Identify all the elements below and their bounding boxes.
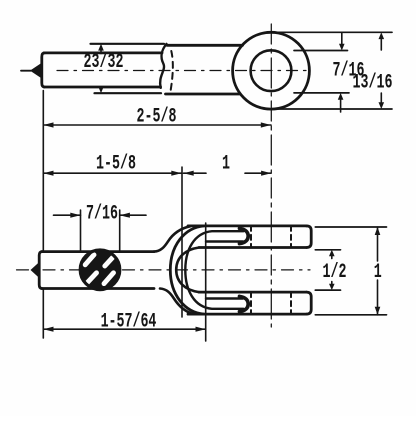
flare transition shank->fork top <box>154 226 190 251</box>
svg-text:23/32: 23/32 <box>84 51 124 73</box>
right-side 1 top extension line <box>315 226 386 228</box>
svg-text:1/2: 1/2 <box>323 262 347 284</box>
tongue cap top prong <box>240 228 249 243</box>
rod bottom edge <box>44 86 161 89</box>
fork bottom prong top (slot) edge <box>199 291 307 294</box>
dimension 1 (right) vertical line upper <box>377 227 379 261</box>
dimension 1-5/8 left arrow <box>43 171 53 176</box>
dimension 1 (right) top arrow <box>375 227 381 235</box>
left extension line (lower segment, 1-57/64) <box>42 290 44 339</box>
dimension 1-57/64 left arrow <box>43 327 53 332</box>
eye inner circle (hole) <box>251 50 292 91</box>
tongue inner line top <box>206 240 243 242</box>
dimension 1-57/64 right arrow <box>196 327 206 332</box>
dimension 1-5/8 right arrow <box>171 171 181 176</box>
hidden hole line left (top prong) <box>250 226 252 248</box>
extension line inner-top (7/16) <box>294 50 348 52</box>
centerline stub left of rod tip <box>21 70 31 72</box>
rod left tip (filled cone) <box>30 63 42 79</box>
fork bottom prong right end <box>307 292 312 314</box>
shank top edge <box>42 250 155 253</box>
svg-text:1: 1 <box>222 153 230 175</box>
bottom view horizontal center line (dash-dot) <box>17 269 311 271</box>
left extension line (upper segment, shared by 2-5/8, 1-5/8) <box>42 91 44 251</box>
fork top prong top edge <box>188 224 307 227</box>
dimension 1-57/64 line <box>43 328 205 330</box>
flare transition shank->fork bottom <box>160 289 193 314</box>
dimension 7/16 bottom arrow (up) <box>340 99 342 112</box>
fork top prong bottom (slot) edge <box>199 246 307 249</box>
svg-text:2-5/8: 2-5/8 <box>137 106 177 128</box>
extension line inner-bottom (7/16) <box>294 92 349 94</box>
shank bottom edge <box>42 287 155 290</box>
boss bottom extension line (23/32 lower) <box>95 92 162 94</box>
dimension 2-5/8 left arrow <box>43 122 53 127</box>
dimension 1 (right) bottom arrow <box>375 307 381 315</box>
rod left end vertical edge <box>42 53 45 87</box>
fork bottom prong bottom edge <box>188 313 307 316</box>
dimension 1-5/8 line <box>43 172 182 174</box>
1/2 lower arrow (down) <box>331 282 333 286</box>
extension line outer-bottom (13/16) <box>272 108 392 110</box>
extension line x=205.7 (1-57/64 right reference) <box>205 223 207 341</box>
boss bottom edge (right of break) <box>166 93 241 96</box>
rod top edge <box>44 52 162 55</box>
fork top prong right end <box>307 226 312 248</box>
hidden hole line left (bottom prong) <box>250 292 252 314</box>
rod horizontal center line (dash-dot) <box>57 70 312 72</box>
rod break line (dashed curve) <box>170 51 173 93</box>
shank left end vertical edge <box>39 252 42 289</box>
dimension 13/16 bottom arrow (down) <box>380 93 382 103</box>
extension line x=182 (slot end reference) <box>181 167 183 317</box>
right-side 1 bottom extension line <box>315 314 386 316</box>
slot end arc <box>176 248 199 293</box>
7/16 (shank) right extension line <box>119 210 121 251</box>
dimension 1 (slot depth) left arrow + tail <box>184 172 207 174</box>
7/16 (shank) left extension line <box>80 210 82 251</box>
1/2 lower stub line <box>315 289 340 291</box>
dimension 7/16 top arrow (down) <box>341 33 343 45</box>
dimension 7/16 (shank) left tail + arrow <box>54 214 81 216</box>
tongue cap bottom prong <box>240 296 249 311</box>
svg-text:13/16: 13/16 <box>353 72 393 94</box>
eye outer circle <box>233 32 310 109</box>
dimension 7/16 (shank) right tail + arrow <box>120 214 146 216</box>
dimension 23/32 arrow up <box>100 50 102 54</box>
extension line outer-top (13/16) <box>272 31 392 33</box>
hatched section circle <box>80 250 120 290</box>
eye vertical center line (dash-dot, continues to bottom view) <box>270 24 272 330</box>
svg-text:1-57/64: 1-57/64 <box>101 311 157 333</box>
1/2 upper stub line <box>315 249 340 251</box>
tongue outer curve (inner bend surface) <box>185 231 243 309</box>
dimension 1 right tail + arrow <box>245 172 271 174</box>
hidden hole line right (top prong) <box>290 226 292 248</box>
1/2 upper arrow (up) <box>331 254 333 259</box>
hidden hole line right (bottom prong) <box>290 292 292 314</box>
svg-text:1: 1 <box>374 262 382 284</box>
boss top edge (right of break) <box>167 44 243 47</box>
dimension labels <box>84 51 393 333</box>
dimension 13/16 top arrow (up) <box>380 39 382 50</box>
dimension 2-5/8 line <box>43 124 271 126</box>
dimension 23/32 arrow down <box>100 86 102 89</box>
svg-text:1-5/8: 1-5/8 <box>96 153 136 175</box>
fork outer bend arc <box>170 226 204 314</box>
svg-text:7/16: 7/16 <box>86 203 118 225</box>
dimension 1 (right) vertical line lower <box>377 280 379 315</box>
boss top extension line (23/32 upper) <box>91 43 165 45</box>
tongue inner line bottom <box>206 297 243 299</box>
rod break line (solid S-curve) <box>160 44 166 88</box>
dimension 2-5/8 right arrow <box>261 122 271 127</box>
shank left tip (filled cone) <box>31 262 40 278</box>
